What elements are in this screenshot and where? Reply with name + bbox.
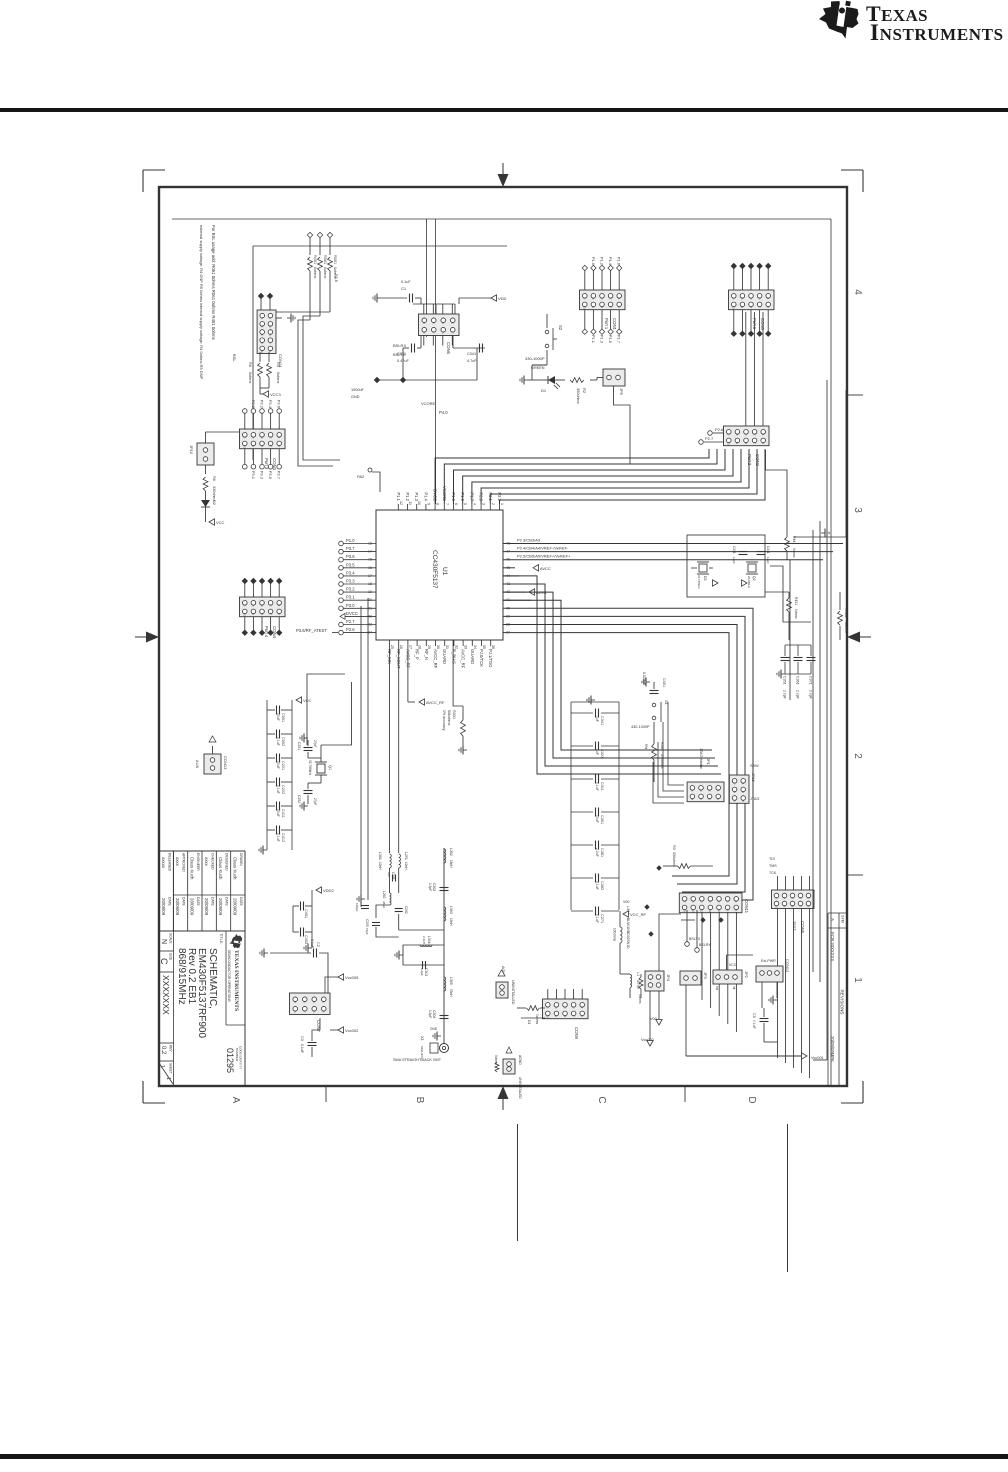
svg-text:GUARD: GUARD (442, 649, 447, 664)
svg-text:1: 1 (159, 1065, 165, 1068)
svg-text:C5: C5 (752, 1013, 756, 1018)
svg-text:JP10: JP10 (189, 445, 194, 455)
svg-text:P2.3/CB3/A3: P2.3/CB3/A3 (517, 538, 541, 543)
svg-text:0ohms: 0ohms (494, 1055, 498, 1065)
svg-text:C303: C303 (424, 968, 428, 976)
svg-text:Port 3: Port 3 (264, 458, 269, 470)
svg-text:P3.5: P3.5 (268, 471, 273, 480)
svg-text:C1: C1 (401, 286, 407, 291)
svg-text:20/09/09: 20/09/09 (204, 898, 209, 916)
svg-text:RELEASED: RELEASED (167, 853, 171, 872)
svg-text:18: 18 (368, 582, 372, 586)
svg-text:Claus Kuch: Claus Kuch (218, 857, 223, 880)
svg-text:2.0pF: 2.0pF (796, 690, 800, 699)
svg-text:CON3: CON3 (272, 458, 277, 471)
svg-text:C311: C311 (600, 782, 604, 791)
svg-text:P2.5/CB5/A5/VREF+/VeREF+: P2.5/CB5/A5/VREF+/VeREF+ (517, 554, 571, 559)
svg-text:Port 2: Port 2 (747, 454, 752, 466)
svg-text:CON1: CON1 (612, 318, 617, 331)
svg-text:1: 1 (500, 503, 504, 505)
svg-text:20/09/09: 20/09/09 (190, 898, 195, 916)
svg-text:C: C (159, 958, 169, 965)
svg-text:01295: 01295 (225, 1048, 235, 1073)
svg-text:R_BIAS: R_BIAS (451, 649, 456, 664)
svg-text:100pF: 100pF (355, 903, 359, 912)
svg-text:13: 13 (368, 542, 372, 546)
svg-text:B: B (414, 1097, 425, 1104)
svg-text:ECR 20XXXXX: ECR 20XXXXX (830, 932, 835, 962)
svg-text:P2.7: P2.7 (705, 436, 714, 441)
svg-text:AVCC_RF: AVCC_RF (461, 649, 466, 669)
svg-text:D1: D1 (541, 388, 547, 393)
svg-text:P3.5: P3.5 (346, 562, 355, 567)
svg-text:GREEN: GREEN (531, 366, 545, 370)
svg-text:REV: REV (169, 1045, 173, 1052)
svg-text:JP5: JP5 (619, 388, 624, 396)
svg-text:CON9: CON9 (574, 1027, 579, 1040)
svg-text:R5: R5 (276, 362, 280, 367)
svg-text:ext: ext (715, 986, 719, 990)
svg-text:0.1uF: 0.1uF (401, 280, 411, 284)
svg-text:TEST: TEST (792, 921, 796, 931)
svg-text:VCC3: VCC3 (270, 392, 281, 397)
svg-text:P1.1: P1.1 (591, 335, 596, 344)
svg-text:C431: C431 (732, 546, 736, 554)
svg-text:20/09/09: 20/09/09 (161, 898, 166, 916)
svg-text:P1.4: P1.4 (608, 257, 613, 266)
svg-text:XXXXXXX: XXXXXXX (161, 975, 171, 1015)
svg-text:TEXAS INSTRUMENTS: TEXAS INSTRUMENTS (233, 950, 239, 1011)
svg-text:DVCC: DVCC (346, 611, 358, 616)
svg-text:15pF: 15pF (365, 928, 369, 935)
svg-text:0.1uF: 0.1uF (276, 737, 280, 746)
svg-text:868/915MHz: 868/915MHz (176, 948, 187, 1005)
svg-text:0ohms: 0ohms (276, 372, 280, 383)
svg-text:C412: C412 (281, 833, 285, 842)
svg-text:GUARD: GUARD (470, 649, 475, 664)
svg-text:R2: R2 (582, 388, 587, 394)
svg-text:12: 12 (399, 501, 403, 505)
svg-text:VDD: VDD (498, 296, 507, 301)
svg-text:X1: X1 (420, 1036, 425, 1042)
svg-text:5%: 5% (644, 744, 648, 749)
svg-text:20/09/09: 20/09/09 (233, 898, 238, 916)
svg-text:P3.2: P3.2 (346, 587, 355, 592)
svg-text:4.7uH: 4.7uH (636, 980, 640, 990)
svg-text:32.768kHz: 32.768kHz (697, 575, 701, 589)
svg-text:C304: C304 (432, 1010, 436, 1018)
svg-text:20/09/09: 20/09/09 (175, 898, 180, 916)
svg-text:VDD2: VDD2 (323, 888, 334, 893)
svg-text:For BSL usage add: R051 0ohms: For BSL usage add: R051 0ohms R061 0ohms… (211, 225, 216, 340)
svg-text:8.2pF: 8.2pF (420, 968, 424, 976)
svg-text:R401: R401 (660, 742, 664, 751)
svg-text:P3.1: P3.1 (251, 471, 256, 480)
svg-text:Vcc002: Vcc002 (641, 1038, 654, 1042)
svg-text:RF_P: RF_P (415, 649, 420, 660)
svg-text:C: C (596, 1096, 607, 1103)
svg-text:P1.3: P1.3 (600, 335, 605, 344)
svg-text:BSLRX: BSLRX (393, 343, 406, 348)
svg-text:C221: C221 (281, 761, 285, 770)
svg-text:C351: C351 (783, 676, 787, 685)
svg-text:S2: S2 (558, 325, 563, 331)
svg-text:P1.1: P1.1 (396, 492, 401, 501)
svg-text:C291: C291 (391, 872, 395, 880)
svg-text:VCC: VCC (729, 963, 737, 967)
svg-text:4.7uF: 4.7uF (467, 359, 477, 363)
svg-text:2: 2 (852, 753, 863, 759)
svg-text:R451: R451 (313, 255, 317, 264)
svg-text:P2.6: P2.6 (346, 627, 355, 632)
svg-text:4: 4 (852, 289, 863, 295)
svg-text:P3.4: P3.4 (346, 570, 355, 575)
svg-text:R441: R441 (792, 536, 796, 544)
svg-text:CODE IDENTITY: CODE IDENTITY (239, 1046, 243, 1069)
svg-text:20/09/09: 20/09/09 (218, 898, 223, 916)
svg-text:0.1uF: 0.1uF (310, 939, 314, 948)
svg-text:26.0MHz: 26.0MHz (747, 576, 751, 589)
svg-text:CON2: CON2 (755, 454, 760, 467)
svg-text:P3.2: P3.2 (260, 400, 265, 409)
svg-text:AVCC: AVCC (540, 566, 551, 571)
svg-text:P3.6: P3.6 (346, 554, 355, 559)
svg-text:N: N (160, 939, 167, 944)
svg-text:TCK: TCK (769, 871, 777, 875)
svg-text:5: 5 (463, 503, 467, 505)
svg-text:CON5: CON5 (760, 318, 765, 331)
svg-text:C371: C371 (809, 676, 813, 685)
svg-text:SYM: SYM (841, 915, 845, 923)
svg-text:1pF: 1pF (387, 872, 391, 877)
svg-text:Q2: Q2 (752, 576, 756, 581)
svg-text:P3.7: P3.7 (277, 471, 282, 480)
svg-text:L291: L291 (404, 852, 408, 860)
svg-text:TMS: TMS (769, 864, 777, 868)
svg-text:xxxxx: xxxxx (161, 857, 166, 869)
svg-text:2: 2 (491, 503, 495, 505)
svg-text:AGND: AGND (518, 1055, 522, 1065)
svg-text:BSLRX: BSLRX (699, 943, 711, 947)
svg-text:C411: C411 (281, 809, 285, 818)
svg-text:L305: L305 (449, 977, 453, 985)
svg-text:P4.0: P4.0 (439, 410, 448, 415)
svg-text:2.2nH: 2.2nH (422, 936, 426, 944)
svg-text:0ohms: 0ohms (313, 267, 317, 278)
svg-text:12pF: 12pF (766, 557, 770, 564)
svg-text:0.1uF: 0.1uF (595, 881, 599, 890)
svg-text:0.1uF: 0.1uF (276, 833, 280, 842)
svg-text:JP3: JP3 (703, 972, 708, 980)
svg-text:UNINSTALLED: UNINSTALLED (518, 1077, 522, 1099)
svg-text:0.1uF: 0.1uF (752, 1020, 756, 1029)
svg-text:BSLTX: BSLTX (393, 352, 406, 357)
svg-text:0ohms: 0ohms (323, 267, 327, 278)
svg-text:1000uF: 1000uF (351, 388, 365, 392)
svg-text:CC430F5137: CC430F5137 (431, 550, 438, 589)
svg-text:R331: R331 (452, 710, 456, 719)
svg-text:330ohms: 330ohms (672, 852, 676, 867)
svg-text:27pF: 27pF (313, 798, 317, 805)
svg-text:22: 22 (368, 614, 372, 618)
svg-text:DATE: DATE (182, 897, 186, 907)
svg-text:3: 3 (482, 503, 486, 505)
svg-text:1.5pF: 1.5pF (428, 883, 432, 891)
svg-text:DATE: DATE (225, 897, 229, 907)
svg-text:390ohms: 390ohms (576, 388, 580, 404)
svg-text:GND: GND (430, 1027, 438, 1031)
svg-text:P3.3: P3.3 (260, 471, 265, 480)
svg-text:0.1uF: 0.1uF (276, 785, 280, 794)
svg-text:CON12: CON12 (785, 959, 790, 973)
svg-text:P1.5: P1.5 (608, 335, 613, 344)
svg-text:2.2uF: 2.2uF (595, 848, 599, 857)
svg-text:DATE: DATE (196, 897, 200, 907)
svg-text:0ohms: 0ohms (248, 372, 252, 383)
svg-text:AVCC_RF: AVCC_RF (426, 700, 445, 705)
svg-text:JP16: JP16 (751, 773, 755, 782)
svg-text:int: int (732, 986, 736, 989)
svg-text:R061: R061 (323, 255, 327, 264)
svg-text:AUX: AUX (195, 760, 200, 769)
svg-text:PJ.0/TCK: PJ.0/TCK (479, 649, 484, 667)
svg-text:47kohms: 47kohms (660, 754, 664, 769)
svg-text:10: 10 (417, 501, 421, 505)
svg-text:19: 19 (368, 590, 372, 594)
svg-text:23: 23 (368, 623, 372, 627)
svg-text:D3: D3 (703, 576, 707, 581)
svg-text:C292: C292 (404, 906, 408, 914)
svg-text:GND: GND (351, 395, 360, 399)
svg-text:L302: L302 (449, 848, 453, 856)
svg-text:15: 15 (368, 558, 372, 562)
svg-text:JP2: JP2 (744, 971, 749, 979)
svg-text:Rev 0.2 EB1: Rev 0.2 EB1 (186, 948, 197, 1005)
svg-text:1uF: 1uF (595, 749, 599, 755)
svg-text:CON6: CON6 (446, 342, 451, 355)
svg-text:12nH: 12nH (404, 862, 408, 870)
svg-text:24: 24 (368, 631, 372, 635)
svg-text:C001: C001 (281, 713, 285, 722)
svg-text:Vcc001: Vcc001 (811, 1056, 824, 1060)
svg-text:VCORE: VCORE (421, 401, 436, 406)
svg-text:17: 17 (368, 574, 372, 578)
svg-text:P3.0: P3.0 (346, 603, 355, 608)
svg-text:V00: V00 (650, 1017, 657, 1021)
svg-text:SMA STRAIGHT JACK SMT: SMA STRAIGHT JACK SMT (393, 1058, 442, 1062)
svg-text:15nH: 15nH (449, 918, 453, 926)
svg-text:P3.4: P3.4 (268, 400, 273, 409)
svg-text:APPROVED: APPROVED (182, 853, 186, 872)
svg-text:C452: C452 (304, 935, 308, 944)
svg-text:C361: C361 (796, 676, 800, 685)
svg-text:C382: C382 (600, 881, 604, 890)
svg-text:1.5pF: 1.5pF (428, 1010, 432, 1018)
svg-text:PJ.1/TDO: PJ.1/TDO (488, 649, 493, 668)
svg-text:0ohms: 0ohms (792, 548, 796, 558)
svg-text:7: 7 (445, 503, 449, 505)
svg-text:Q1: Q1 (328, 765, 332, 770)
svg-text:P3.8: P3.8 (334, 274, 338, 282)
svg-text:P1.6: P1.6 (617, 257, 622, 266)
svg-text:Claus Kuch: Claus Kuch (190, 857, 195, 880)
svg-text:Claus Kuch: Claus Kuch (233, 857, 238, 880)
svg-text:21: 21 (368, 606, 372, 610)
svg-text:P2.6: P2.6 (715, 427, 724, 432)
svg-text:VCC: VCC (216, 520, 225, 525)
svg-text:P3.1: P3.1 (346, 595, 355, 600)
svg-text:10uF: 10uF (595, 815, 599, 823)
svg-text:DRAWN: DRAWN (239, 853, 243, 866)
svg-text:P1.3: P1.3 (414, 492, 419, 501)
svg-text:8: 8 (436, 503, 440, 505)
svg-text:C041: C041 (467, 352, 476, 356)
svg-text:R3: R3 (672, 845, 676, 850)
svg-text:430-1000P: 430-1000P (525, 356, 545, 361)
svg-text:P1.2: P1.2 (405, 492, 410, 501)
svg-text:JP1: JP1 (706, 758, 711, 766)
svg-text:Vcc002: Vcc002 (345, 1028, 359, 1033)
svg-text:4: 4 (472, 503, 476, 505)
svg-text:RF_N: RF_N (424, 649, 429, 660)
svg-text:L301: L301 (378, 852, 382, 860)
svg-text:10uF: 10uF (276, 761, 280, 769)
svg-text:EM430F5137RF900: EM430F5137RF900 (196, 948, 207, 1038)
svg-text:C441: C441 (766, 546, 770, 554)
svg-text:SCHEMATIC,: SCHEMATIC, (207, 948, 218, 1009)
svg-text:D: D (746, 1096, 757, 1103)
svg-text:0.1uF: 0.1uF (300, 1044, 304, 1053)
svg-text:C222: C222 (281, 785, 285, 794)
svg-text:D2: D2 (212, 500, 216, 505)
svg-text:10uF: 10uF (276, 809, 280, 817)
svg-text:12pF: 12pF (732, 557, 736, 564)
svg-text:DATE: DATE (210, 897, 214, 907)
svg-text:xxxx: xxxx (204, 857, 209, 867)
svg-text:C451: C451 (304, 909, 308, 918)
svg-text:R431: R431 (794, 597, 798, 605)
svg-text:55nH: 55nH (449, 989, 453, 997)
svg-text:R431: R431 (844, 608, 848, 617)
svg-text:10uF: 10uF (276, 713, 280, 721)
svg-text:16: 16 (368, 566, 372, 570)
svg-text:xxxx: xxxx (175, 857, 180, 867)
svg-text:V00: V00 (623, 900, 629, 904)
svg-text:9: 9 (426, 503, 430, 505)
svg-text:C293: C293 (365, 919, 369, 927)
svg-text:UNINSTALLED: UNINSTALLED (511, 980, 515, 1005)
svg-text:P2.7: P2.7 (346, 619, 355, 624)
svg-text:3: 3 (852, 507, 863, 513)
svg-text:SHEET: SHEET (169, 1063, 173, 1074)
svg-text:DESIGNED: DESIGNED (225, 853, 229, 871)
svg-text:CON8: CON8 (800, 921, 805, 934)
svg-text:P3.7: P3.7 (346, 546, 355, 551)
svg-text:D1: D1 (527, 1020, 531, 1025)
svg-text:2.0pF: 2.0pF (783, 690, 787, 699)
svg-text:C252: C252 (297, 795, 301, 803)
svg-text:Ext-PWR: Ext-PWR (761, 959, 776, 963)
svg-text:18nH: 18nH (449, 860, 453, 868)
svg-text:12nH: 12nH (378, 862, 382, 870)
svg-text:P3.6/RF_ATEST: P3.6/RF_ATEST (296, 628, 327, 633)
svg-text:27pF: 27pF (313, 740, 317, 747)
svg-text:20/09/09MPK: 20/09/09MPK (830, 1036, 835, 1062)
svg-text:0ohms: 0ohms (638, 994, 642, 1004)
svg-text:AVCC_RF: AVCC_RF (433, 649, 438, 669)
svg-text:BSL: BSL (232, 354, 237, 362)
svg-text:SCALE: SCALE (169, 933, 173, 943)
svg-text:BSLTX: BSLTX (689, 937, 701, 941)
svg-text:0.1uF: 0.1uF (595, 782, 599, 791)
svg-text:NUMBER: NUMBER (235, 1048, 239, 1062)
svg-text:P3.6: P3.6 (277, 400, 282, 409)
svg-text:0.1uF: 0.1uF (595, 914, 599, 923)
svg-text:R051: R051 (333, 255, 337, 264)
svg-text:REVISIONS: REVISIONS (840, 989, 845, 1014)
svg-text:0.2: 0.2 (160, 1046, 166, 1055)
svg-text:CON11: CON11 (744, 899, 749, 914)
svg-text:L1: L1 (636, 972, 640, 976)
svg-text:C002: C002 (281, 737, 285, 746)
svg-text:P1.4: P1.4 (423, 492, 428, 501)
svg-text:6: 6 (454, 503, 458, 505)
svg-text:P1.7: P1.7 (617, 335, 622, 344)
svg-text:JP4: JP4 (666, 974, 671, 982)
svg-text:20: 20 (368, 598, 372, 602)
svg-text:U1: U1 (441, 567, 448, 576)
svg-text:C401: C401 (662, 678, 666, 687)
svg-text:PA2: PA2 (357, 474, 365, 479)
svg-text:TITLE:: TITLE: (219, 933, 223, 944)
svg-text:C341: C341 (600, 716, 604, 725)
svg-text:L303: L303 (449, 906, 453, 914)
svg-text:C381: C381 (600, 848, 604, 857)
svg-text:SIZE: SIZE (169, 953, 173, 960)
svg-text:BLM18VBD32SN1D: BLM18VBD32SN1D (626, 918, 630, 949)
svg-text:0ohms: 0ohms (794, 609, 798, 619)
svg-text:P2.4/CB4/A4/VREF-/VeREF-: P2.4/CB4/A4/VREF-/VeREF- (517, 546, 569, 551)
svg-text:11: 11 (408, 501, 412, 505)
svg-text:C251: C251 (297, 742, 301, 750)
svg-text:C302: C302 (432, 883, 436, 891)
svg-text:C3: C3 (300, 1036, 304, 1041)
svg-text:P1.2: P1.2 (600, 257, 605, 266)
svg-text:C301: C301 (600, 815, 604, 824)
svg-text:JTAG Matrix: JTAG Matrix (699, 748, 703, 769)
svg-text:1: 1 (852, 977, 863, 983)
svg-text:C2: C2 (316, 942, 320, 947)
svg-text:P3.3: P3.3 (346, 579, 355, 584)
svg-text:L292: L292 (382, 891, 386, 899)
svg-text:2.0pF: 2.0pF (809, 690, 813, 699)
svg-text:Vcc005: Vcc005 (345, 975, 359, 980)
svg-text:ENGINEER: ENGINEER (196, 853, 200, 871)
svg-text:P1.0: P1.0 (591, 257, 596, 266)
svg-text:100ohms: 100ohms (613, 928, 617, 942)
svg-text:14: 14 (368, 550, 372, 554)
svg-text:R6: R6 (212, 476, 216, 481)
svg-text:JTAG: JTAG (750, 797, 759, 801)
svg-text:0ohms: 0ohms (844, 622, 848, 633)
svg-text:L304: L304 (427, 936, 431, 944)
svg-text:0ohms: 0ohms (535, 1014, 539, 1024)
svg-text:1uF: 1uF (595, 716, 599, 722)
svg-text:32.768kHz: 32.768kHz (308, 760, 312, 776)
svg-text:A: A (830, 918, 835, 921)
svg-text:external supply voltage: R4 DN: external supply voltage: R4 DNP R5 0ohms… (199, 225, 204, 380)
svg-text:1: 1 (165, 1077, 171, 1080)
